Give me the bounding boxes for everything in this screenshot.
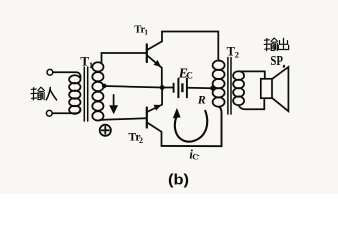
wire: T1 secondary bottom to Tr2 base [100,118,146,120]
transistor Tr2 [147,88,162,147]
node: emitter junction [160,85,165,90]
transistor Tr1 [147,32,162,88]
wire: T1 secondary top to Tr1 base [102,53,146,63]
svg-text:R: R [197,92,206,106]
wire: center tap to emitter junction [104,86,162,88]
wire: top rail (Tr1 collector to T2 primary top) [162,32,220,62]
svg-text:2: 2 [139,136,143,145]
transformer T2 primary winding [213,60,225,106]
input terminal J1 (top) [47,69,53,75]
svg-text:1: 1 [144,28,148,37]
polarity mark (circled plus) [100,125,111,136]
svg-text:SP: SP [270,54,283,69]
battery Ec [174,78,187,98]
wire: bottom rail (Tr2 collector to T2 primary bottom) [162,107,222,146]
wire: T2 secondary bottom to speaker [239,98,265,109]
input terminal J2 (bottom) [46,110,52,116]
speaker SP (driver box) [261,79,272,98]
transformer T1 secondary winding [92,62,103,120]
wire: battery to T2 center tap (R) [188,87,213,90]
svg-text:2: 2 [235,49,239,59]
stray mark after iC label [197,155,200,157]
transformer T2 core [228,58,231,115]
speaker SP (horn) [272,67,288,111]
wire: bottom terminal to T1 primary bottom [52,109,80,114]
svg-text:1: 1 [89,60,93,70]
svg-text:(b): (b) [168,171,189,188]
node: T2 center tap [210,86,215,91]
label 输入 (input) [31,87,57,100]
node: T1 center tap [102,84,107,89]
transformer T2 secondary winding [233,71,244,105]
wire: junction to battery [164,87,173,89]
svg-text:C: C [192,152,198,162]
svg-text:C: C [186,70,193,80]
mark after SP [282,64,285,68]
transformer T1 core [84,67,87,121]
wire: T2 secondary top to speaker [240,71,265,78]
transformer T1 primary winding [69,75,80,114]
collector current loop arrow iC [173,108,207,142]
label 输出 (output) [264,38,288,51]
wire: top terminal to T1 primary top [53,72,81,77]
current arrow (down) beside T1 secondary [109,95,118,115]
